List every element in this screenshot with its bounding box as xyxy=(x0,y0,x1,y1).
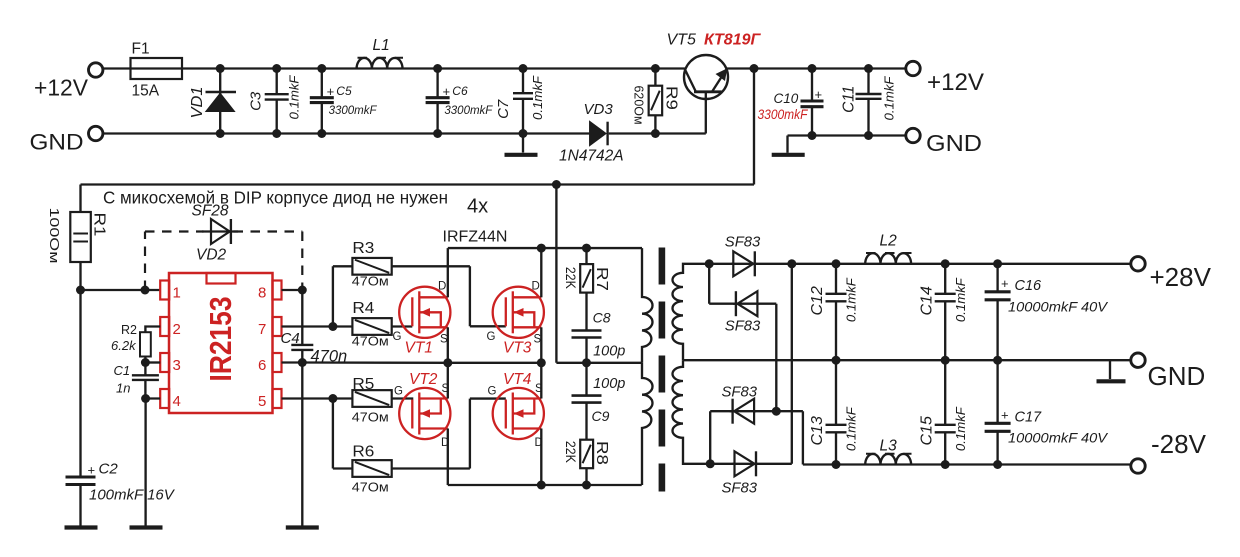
capacitor C2 xyxy=(66,475,96,478)
wire +12V distribution line xyxy=(81,183,755,185)
svg-text:IR2153: IR2153 xyxy=(203,297,238,382)
wire R3 to VT3 gate xyxy=(392,266,506,326)
wire VT4 drain xyxy=(540,429,542,486)
wire pin7 row xyxy=(282,325,353,327)
svg-text:C7: C7 xyxy=(495,99,512,119)
svg-text:G: G xyxy=(393,331,402,343)
svg-text:+: + xyxy=(1001,408,1009,423)
diode VD1 xyxy=(219,69,221,134)
wire center tap feed xyxy=(556,185,642,363)
wire pin3 row xyxy=(145,361,160,363)
svg-text:C13: C13 xyxy=(809,416,826,445)
svg-text:GND: GND xyxy=(926,130,982,156)
svg-text:S: S xyxy=(440,334,448,346)
svg-text:R4: R4 xyxy=(352,300,374,317)
svg-text:R1: R1 xyxy=(91,213,108,237)
svg-text:10000mkF 40V: 10000mkF 40V xyxy=(1008,299,1109,315)
wire +12V feed down xyxy=(753,69,755,185)
resistor R2 xyxy=(140,332,151,356)
capacitor C6 xyxy=(436,69,438,98)
ground symbol pin4 xyxy=(130,525,163,529)
wire node A row xyxy=(448,247,642,249)
IC U1 IR2153 xyxy=(160,273,281,413)
diode D3 SF83 xyxy=(710,411,732,464)
capacitor C4 xyxy=(301,290,303,345)
svg-text:SF83: SF83 xyxy=(722,479,758,496)
wire +28V rail xyxy=(792,263,1131,265)
svg-text:10000mkF 40V: 10000mkF 40V xyxy=(1008,430,1109,446)
terminal -28V xyxy=(1131,459,1145,473)
svg-text:G: G xyxy=(488,385,497,397)
svg-text:IRFZ44N: IRFZ44N xyxy=(443,229,508,246)
transistor VT3 xyxy=(493,287,544,338)
svg-text:C4: C4 xyxy=(281,330,300,347)
svg-text:7: 7 xyxy=(258,321,266,338)
fuse F1 xyxy=(131,58,183,79)
svg-text:R6: R6 xyxy=(352,443,374,460)
transformer core xyxy=(659,248,666,285)
svg-text:VT2: VT2 xyxy=(409,371,438,388)
resistor R1 xyxy=(79,185,81,213)
capacitor C8 xyxy=(572,331,602,338)
transformer secondary upper xyxy=(672,264,709,360)
svg-text:SF83: SF83 xyxy=(722,384,758,401)
svg-text:1: 1 xyxy=(173,285,181,302)
dashed bootstrap right xyxy=(234,232,303,291)
terminal GND output mid xyxy=(1131,353,1145,367)
capacitor C15 xyxy=(944,360,946,425)
svg-text:C3: C3 xyxy=(248,91,265,111)
svg-text:R9: R9 xyxy=(663,86,680,110)
capacitor C1 xyxy=(144,363,146,376)
wire R3 jog xyxy=(333,266,353,326)
wire VCC node row xyxy=(81,289,161,291)
svg-text:3: 3 xyxy=(173,357,181,374)
svg-text:SF83: SF83 xyxy=(725,234,761,251)
svg-text:VT1: VT1 xyxy=(405,340,433,357)
svg-text:L2: L2 xyxy=(880,233,898,250)
svg-text:VD1: VD1 xyxy=(189,87,206,119)
svg-text:4x: 4x xyxy=(467,196,488,218)
svg-text:F1: F1 xyxy=(132,41,150,58)
terminal GND input xyxy=(89,126,103,140)
svg-text:C1: C1 xyxy=(114,363,131,378)
junction dot center tap feed xyxy=(552,180,561,189)
svg-text:8: 8 xyxy=(258,285,266,302)
svg-text:47Ом: 47Ом xyxy=(352,410,389,425)
wire R5 to VT2 gate xyxy=(392,397,414,399)
svg-text:C17: C17 xyxy=(1015,410,1043,426)
resistor R5 xyxy=(352,390,391,407)
svg-text:620Ом: 620Ом xyxy=(632,86,647,125)
transformer secondary lower xyxy=(672,360,710,464)
ground symbol right rail xyxy=(786,136,788,153)
svg-text:47Ом: 47Ом xyxy=(352,274,389,289)
svg-text:S: S xyxy=(442,383,450,395)
svg-text:+12V: +12V xyxy=(927,69,984,96)
resistor R7 xyxy=(585,248,587,264)
svg-text:C6: C6 xyxy=(452,84,468,98)
svg-text:R2: R2 xyxy=(121,323,137,337)
svg-text:0.1mkF: 0.1mkF xyxy=(287,75,302,120)
svg-text:D: D xyxy=(535,437,543,449)
svg-text:VT5: VT5 xyxy=(667,32,696,49)
svg-text:D: D xyxy=(532,281,540,293)
svg-text:100Ом: 100Ом xyxy=(47,208,62,264)
diode D4 SF83 xyxy=(710,463,734,465)
wire top rail xyxy=(103,67,686,69)
ground symbol C4 xyxy=(286,525,319,529)
svg-text:1n: 1n xyxy=(116,381,130,396)
svg-text:6: 6 xyxy=(258,357,266,374)
svg-text:S: S xyxy=(534,334,542,346)
wire node C row xyxy=(448,484,642,486)
capacitor C17 xyxy=(996,360,998,423)
transformer primary lower xyxy=(642,363,653,485)
diode D1 SF83 xyxy=(709,263,733,265)
svg-text:3300mkF: 3300mkF xyxy=(758,106,809,122)
svg-text:0.1mkF: 0.1mkF xyxy=(844,406,859,451)
wire pin2 row xyxy=(145,327,160,333)
svg-text:22K: 22K xyxy=(563,267,578,289)
svg-text:+: + xyxy=(815,87,823,102)
svg-text:C15: C15 xyxy=(919,416,936,445)
svg-text:C9: C9 xyxy=(592,408,610,424)
svg-text:+: + xyxy=(1001,276,1009,291)
capacitor C7 xyxy=(522,69,524,94)
wire pin4 row + ground xyxy=(146,399,161,527)
svg-text:+: + xyxy=(443,84,451,99)
resistor R6 xyxy=(352,460,391,477)
svg-text:5: 5 xyxy=(258,393,266,410)
svg-text:VD3: VD3 xyxy=(584,101,614,118)
capacitor C12 xyxy=(835,264,837,294)
wire R6 to VT4 gate xyxy=(392,399,506,469)
svg-text:100p: 100p xyxy=(593,376,625,392)
svg-text:+12V: +12V xyxy=(34,75,89,101)
inductor L2 xyxy=(865,253,911,264)
diode VD3 zener xyxy=(590,122,606,146)
svg-text:R5: R5 xyxy=(352,376,374,393)
transistor VT2 xyxy=(399,388,450,439)
svg-text:-28V: -28V xyxy=(1151,429,1207,459)
terminal +12V input xyxy=(89,63,103,77)
resistor R9 xyxy=(654,69,656,134)
svg-text:R8: R8 xyxy=(593,441,610,465)
wire C4 ground xyxy=(301,363,303,527)
wire VT2 source xyxy=(447,363,449,399)
ground symbol GND output xyxy=(1109,360,1111,379)
wire GND mid rail xyxy=(683,359,1131,361)
resistor R8 xyxy=(580,440,593,469)
ground symbol C7 xyxy=(505,153,538,157)
svg-text:3300mkF: 3300mkF xyxy=(329,105,378,117)
wire pin8 stub xyxy=(282,289,303,291)
svg-text:+: + xyxy=(327,84,335,99)
svg-text:SF28: SF28 xyxy=(192,202,229,219)
capacitor C10 xyxy=(811,69,813,102)
svg-text:0.1mkF: 0.1mkF xyxy=(882,76,897,121)
capacitor C3 xyxy=(276,69,278,95)
wire lower right rail xyxy=(788,134,907,136)
inductor L1 xyxy=(357,58,403,69)
svg-text:100mkF 16V: 100mkF 16V xyxy=(89,487,176,504)
resistor R4 xyxy=(352,318,391,335)
svg-text:VD2: VD2 xyxy=(196,247,227,264)
svg-text:+28V: +28V xyxy=(1150,262,1212,292)
capacitor C13 xyxy=(835,360,837,425)
wire VT1 source xyxy=(447,327,449,363)
svg-text:VT3: VT3 xyxy=(503,340,532,357)
svg-text:D: D xyxy=(441,437,449,449)
svg-text:22K: 22K xyxy=(563,441,578,463)
diode VD2 SF28 xyxy=(202,230,238,232)
svg-text:С микосхемой в DIP корпусе дио: С микосхемой в DIP корпусе диод не нужен xyxy=(103,188,448,208)
terminal +12V output xyxy=(906,61,920,75)
svg-text:C11: C11 xyxy=(841,86,858,113)
svg-text:R3: R3 xyxy=(352,240,374,257)
svg-text:C8: C8 xyxy=(593,309,611,325)
wire pin6 VS row xyxy=(282,361,542,364)
wire VT2 drain xyxy=(447,429,449,486)
svg-text:G: G xyxy=(394,385,403,397)
svg-text:КТ819Г: КТ819Г xyxy=(704,32,762,49)
junction dots lower xyxy=(76,286,85,295)
svg-text:15A: 15A xyxy=(132,83,160,100)
svg-text:100p: 100p xyxy=(593,343,625,359)
terminal +28V xyxy=(1131,257,1145,271)
capacitor C9 xyxy=(585,363,587,396)
wire C2 feed xyxy=(79,290,81,477)
svg-text:4: 4 xyxy=(173,393,181,410)
transistor VT4 xyxy=(493,388,544,439)
diode D2 SF83 xyxy=(709,264,736,304)
wire VT1 drain xyxy=(447,248,449,297)
inductor L3 xyxy=(865,454,911,465)
svg-text:47Ом: 47Ом xyxy=(352,334,389,349)
svg-text:1N4742A: 1N4742A xyxy=(559,148,624,165)
dashed bootstrap left xyxy=(145,232,204,291)
svg-text:0.1mkF: 0.1mkF xyxy=(953,277,968,322)
terminal GND output xyxy=(906,128,920,142)
svg-text:S: S xyxy=(535,383,543,395)
resistor R3 xyxy=(352,258,391,275)
svg-text:C2: C2 xyxy=(99,461,119,478)
svg-text:C10: C10 xyxy=(774,91,799,106)
svg-text:6.2k: 6.2k xyxy=(111,338,137,353)
wire top rail right xyxy=(727,67,906,69)
wire pin5 row xyxy=(282,397,353,399)
svg-text:C14: C14 xyxy=(919,286,936,315)
svg-text:+: + xyxy=(88,463,96,478)
svg-text:G: G xyxy=(487,331,496,343)
wire R4 to VT1 gate xyxy=(392,325,413,327)
capacitor C14 xyxy=(944,264,946,294)
transformer primary upper xyxy=(642,248,653,363)
svg-text:L3: L3 xyxy=(880,437,898,454)
svg-text:C5: C5 xyxy=(336,84,352,98)
capacitor C16 xyxy=(996,264,998,292)
ground symbol C2 xyxy=(65,525,98,529)
svg-text:3300mkF: 3300mkF xyxy=(444,105,493,117)
junction dots top xyxy=(216,64,225,73)
wire VT3 source xyxy=(540,327,542,363)
svg-text:VT4: VT4 xyxy=(503,371,532,388)
wire VT3 drain xyxy=(540,248,542,297)
svg-text:C16: C16 xyxy=(1015,278,1043,294)
svg-text:L1: L1 xyxy=(373,37,390,54)
wire VT4 source xyxy=(540,363,542,399)
svg-text:R7: R7 xyxy=(593,267,610,291)
svg-text:0.1mkF: 0.1mkF xyxy=(953,406,968,451)
capacitor C5 xyxy=(321,69,323,98)
wire -28V rail xyxy=(836,463,1131,465)
capacitor C11 xyxy=(867,69,869,95)
svg-text:C12: C12 xyxy=(809,286,826,315)
wire R6 jog xyxy=(333,399,353,469)
svg-text:47Ом: 47Ом xyxy=(352,479,389,494)
svg-text:GND: GND xyxy=(30,130,84,155)
svg-text:GND: GND xyxy=(1148,361,1206,391)
svg-text:0.1mkF: 0.1mkF xyxy=(844,277,859,322)
svg-text:2: 2 xyxy=(173,321,181,338)
svg-text:D: D xyxy=(438,281,446,293)
transistor VT5 xyxy=(684,55,728,99)
transistor VT1 xyxy=(399,287,450,338)
svg-text:0.1mkF: 0.1mkF xyxy=(530,75,545,120)
svg-text:SF83: SF83 xyxy=(725,318,761,335)
wire GND rail xyxy=(103,132,706,134)
